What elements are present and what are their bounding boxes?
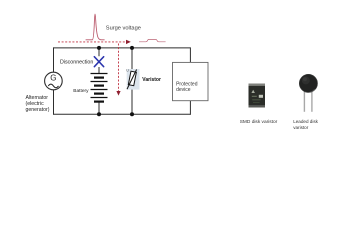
clamped pulse waveform small bbox=[139, 39, 166, 41]
wire top bbox=[54, 47, 191, 49]
svg-text:Surge voltage: Surge voltage bbox=[106, 25, 141, 31]
battery B1 bbox=[91, 74, 108, 102]
junction dot bottom varistor bbox=[130, 112, 134, 116]
junction dot top battery bbox=[97, 46, 101, 50]
disconnection X bbox=[94, 57, 103, 67]
wire right lower bbox=[189, 101, 191, 115]
surge current dashed arrow vertical bbox=[118, 44, 120, 92]
svg-text:Battery: Battery bbox=[73, 88, 89, 94]
surge arrowhead right bbox=[126, 40, 131, 44]
wire battery branch lower bbox=[98, 102, 100, 115]
photo leaded disk varistor legs bbox=[303, 90, 305, 112]
junction dot bottom battery bbox=[97, 112, 101, 116]
svg-text:G: G bbox=[50, 74, 56, 83]
svg-text:Disconnection: Disconnection bbox=[60, 60, 93, 66]
protected device box bbox=[173, 62, 209, 100]
junction dot top varistor bbox=[130, 46, 134, 50]
svg-text:varistor: varistor bbox=[293, 125, 309, 130]
wire varistor branch bbox=[131, 48, 133, 114]
svg-text:Varistor: Varistor bbox=[142, 77, 161, 83]
wire right upper bbox=[189, 47, 191, 62]
surge path dashed arrow horizontal bbox=[58, 41, 126, 43]
photo SMD disk varistor bbox=[249, 84, 266, 108]
wire left lower bbox=[53, 90, 55, 115]
generator U1 circle bbox=[45, 72, 63, 90]
wire battery branch upper stub bbox=[98, 48, 100, 56]
svg-text:U: U bbox=[126, 69, 129, 73]
svg-text:generator): generator) bbox=[26, 107, 50, 113]
varistor RV1 symbol bbox=[126, 69, 136, 90]
svg-text:SMD disk varistor: SMD disk varistor bbox=[240, 119, 278, 125]
photo leaded disk varistor body bbox=[299, 74, 317, 92]
surge arrowhead down bbox=[116, 91, 120, 96]
wire left upper bbox=[53, 47, 55, 72]
wire battery branch below disconnection bbox=[98, 67, 100, 74]
surge pulse waveform large bbox=[86, 14, 105, 40]
svg-text:device: device bbox=[176, 87, 191, 93]
varistor RV1 highlight box bbox=[127, 69, 140, 90]
wire bottom bbox=[54, 113, 191, 115]
svg-text:Leaded disk: Leaded disk bbox=[293, 119, 318, 124]
